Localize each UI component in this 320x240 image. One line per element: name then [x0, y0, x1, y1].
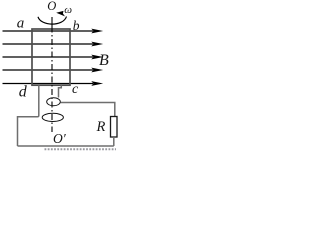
svg-text:c: c — [72, 82, 79, 97]
wire: resistor bottom to bottom rail — [113, 137, 115, 146]
svg-text:d: d — [19, 84, 28, 101]
svg-text:O: O — [47, 0, 56, 13]
wire: coil lead d (left) down to lower ring level — [38, 85, 40, 115]
field line B4 — [3, 68, 104, 73]
coil abcd — [32, 29, 70, 85]
wire: bottom rail — [18, 145, 114, 147]
svg-text:O′: O′ — [53, 131, 67, 146]
rotation arrow omega — [38, 11, 67, 24]
resistor R — [111, 117, 118, 138]
field line B3 — [3, 55, 104, 60]
field line B1 — [3, 29, 104, 34]
svg-text:b: b — [73, 18, 80, 33]
svg-text:R: R — [96, 119, 106, 135]
field line B2 — [3, 42, 104, 47]
slip ring lower — [42, 113, 63, 121]
field line B5 — [3, 81, 104, 86]
svg-text:a: a — [17, 16, 25, 32]
slip ring upper — [47, 98, 61, 106]
wire: coil lead c (right) to upper ring — [59, 85, 62, 97]
wire: right branch from upper ring to resistor — [61, 103, 115, 117]
svg-text:B: B — [99, 52, 109, 69]
rotation axis OO' (dash-dot) — [51, 17, 53, 27]
wire: left branch from lower ring to bottom — [18, 116, 39, 147]
dotted shading under bottom rail — [45, 148, 117, 150]
svg-text:ω: ω — [64, 4, 72, 16]
